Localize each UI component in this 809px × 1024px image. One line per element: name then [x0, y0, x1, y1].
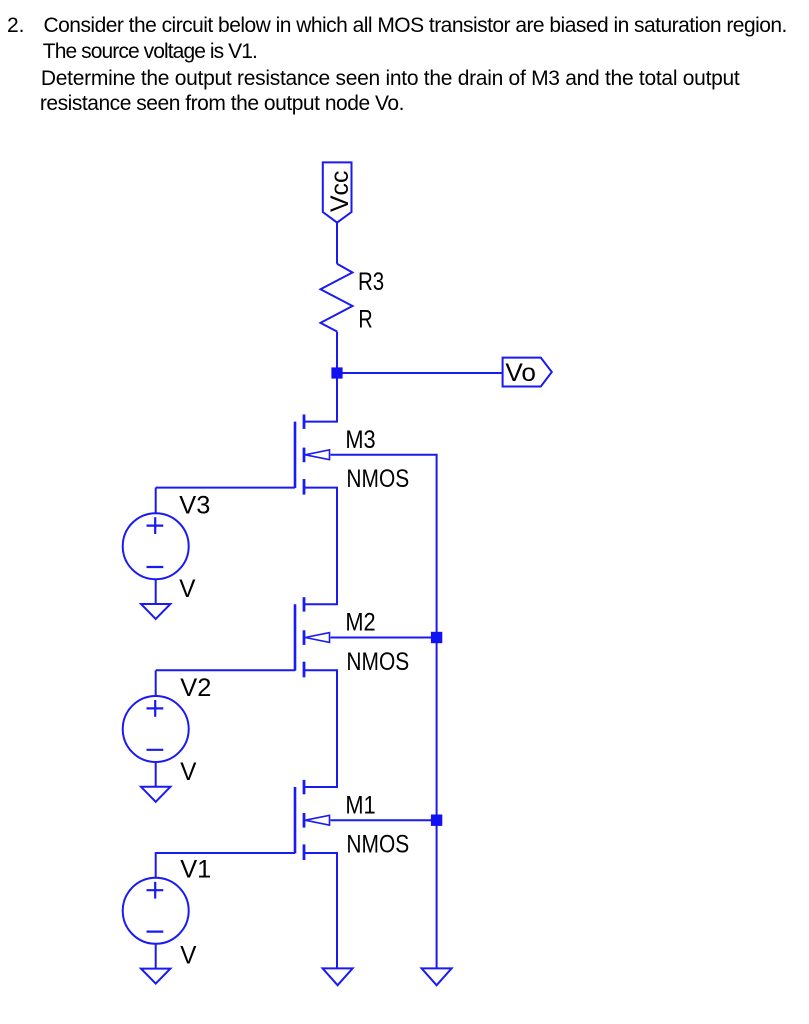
svg-text:M2: M2: [345, 609, 375, 637]
svg-text:V3: V3: [179, 492, 210, 520]
svg-text:Vo: Vo: [505, 359, 536, 387]
svg-text:V1: V1: [180, 856, 211, 884]
svg-text:M1: M1: [345, 792, 375, 820]
svg-text:V: V: [180, 758, 197, 786]
svg-text:V: V: [180, 942, 197, 970]
svg-text:NMOS: NMOS: [346, 647, 409, 675]
svg-text:NMOS: NMOS: [346, 464, 409, 492]
svg-text:R: R: [358, 304, 372, 333]
svg-text:NMOS: NMOS: [346, 830, 409, 858]
svg-text:V2: V2: [180, 674, 211, 702]
svg-text:M3: M3: [345, 426, 375, 454]
svg-text:R3: R3: [358, 267, 384, 296]
svg-text:Vcc: Vcc: [326, 171, 354, 212]
svg-text:V: V: [179, 576, 196, 604]
